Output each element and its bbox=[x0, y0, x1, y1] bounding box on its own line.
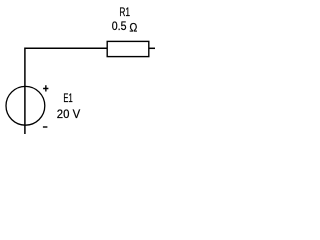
svg-text:R1: R1 bbox=[119, 5, 130, 19]
plus polarity mark bbox=[43, 85, 48, 91]
minus polarity mark bbox=[43, 126, 48, 128]
svg-text:20 V: 20 V bbox=[57, 107, 80, 121]
resistor R1 (box symbol) bbox=[107, 41, 149, 56]
wire: stub from R1 right side to image edge bbox=[149, 47, 155, 49]
svg-text:E1: E1 bbox=[63, 91, 73, 105]
svg-text:0.5: 0.5 bbox=[112, 19, 127, 33]
voltage source E1 (circle) bbox=[6, 86, 45, 125]
svg-text:Ω: Ω bbox=[129, 21, 137, 35]
wire: top horizontal from source to R1, and left vertical down through E1 to bottom edge bbox=[25, 48, 107, 134]
